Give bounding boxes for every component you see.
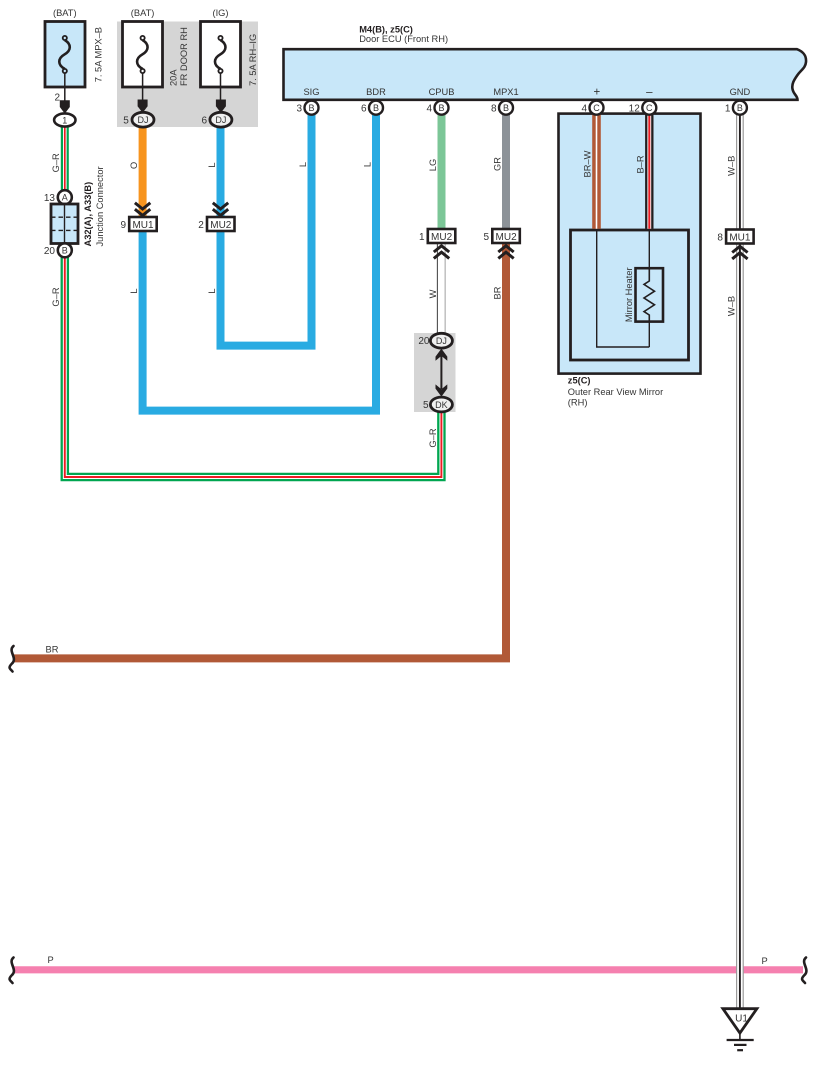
DJ-DK connector gray box bbox=[414, 333, 456, 412]
wire O orange from DJ5 to MU1 bbox=[139, 126, 147, 217]
svg-text:BR: BR bbox=[492, 286, 502, 299]
svg-text:5: 5 bbox=[484, 232, 490, 243]
wire L blue from DJ6 to MU2 bbox=[217, 126, 225, 217]
svg-text:CPUB: CPUB bbox=[429, 87, 455, 97]
fuse 7.5A RH-IG box bbox=[201, 22, 241, 88]
svg-text:B–R: B–R bbox=[636, 155, 646, 173]
svg-text:W–B: W–B bbox=[726, 156, 736, 176]
svg-text:(BAT): (BAT) bbox=[53, 8, 77, 18]
svg-text:GND: GND bbox=[730, 87, 751, 97]
pin circle 6 B (BDR) bbox=[369, 101, 383, 115]
chevron down into MU1 bbox=[135, 203, 150, 216]
svg-text:B: B bbox=[373, 103, 379, 113]
svg-text:(RH): (RH) bbox=[568, 398, 588, 408]
svg-text:C: C bbox=[646, 103, 653, 113]
svg-text:4: 4 bbox=[581, 104, 587, 115]
svg-text:U1: U1 bbox=[735, 1014, 748, 1025]
mirror internal wire left (from BR-W) bbox=[597, 230, 650, 347]
svg-text:2: 2 bbox=[54, 93, 60, 104]
svg-text:SIG: SIG bbox=[303, 87, 319, 97]
svg-text:W: W bbox=[428, 289, 438, 298]
connector oval DJ5 bbox=[132, 112, 154, 127]
svg-text:W–B: W–B bbox=[726, 296, 736, 316]
pin circle 4 C (+) bbox=[590, 101, 604, 115]
svg-text:Junction Connector: Junction Connector bbox=[95, 166, 105, 246]
break squiggle BR left bbox=[10, 646, 14, 672]
svg-text:8: 8 bbox=[491, 104, 497, 115]
svg-text:Outer Rear View Mirror: Outer Rear View Mirror bbox=[568, 387, 663, 397]
connector oval DK (5) bbox=[430, 397, 452, 412]
connector MU1 (8) GND bbox=[726, 230, 754, 244]
connector MU2 (1) CPUB bbox=[428, 229, 456, 243]
svg-text:B: B bbox=[503, 103, 509, 113]
svg-text:6: 6 bbox=[202, 116, 208, 127]
arrow into DJ6 bbox=[216, 100, 226, 113]
pin circle 1 B (GND) bbox=[733, 101, 747, 115]
wire L blue U from MU1 to BDR bbox=[143, 114, 376, 411]
svg-text:–: – bbox=[646, 87, 653, 99]
svg-text:MPX1: MPX1 bbox=[493, 87, 518, 97]
svg-text:DJ: DJ bbox=[215, 115, 226, 125]
wire G-R from oval 1 through junction connector bbox=[61, 126, 69, 191]
svg-text:LG: LG bbox=[428, 159, 438, 171]
pin circle 4 B (CPUB) bbox=[435, 101, 449, 115]
fuse panel gray box (FR DOOR RH / RH-IG) bbox=[117, 22, 258, 128]
svg-text:2: 2 bbox=[198, 220, 204, 231]
svg-text:+: + bbox=[593, 87, 600, 99]
chevron up below MU2 (5) bbox=[498, 246, 513, 259]
mirror heater resistor zigzag bbox=[644, 268, 655, 322]
svg-text:MU2: MU2 bbox=[496, 232, 518, 243]
svg-text:MU1: MU1 bbox=[132, 220, 154, 231]
svg-text:B: B bbox=[737, 103, 743, 113]
arrows between DJ and DK bbox=[436, 349, 448, 397]
svg-text:B: B bbox=[62, 246, 68, 256]
svg-text:L: L bbox=[298, 162, 308, 167]
svg-text:5: 5 bbox=[423, 400, 429, 411]
svg-text:C: C bbox=[593, 103, 600, 113]
svg-text:B: B bbox=[308, 103, 314, 113]
svg-text:3: 3 bbox=[296, 104, 302, 115]
svg-text:(BAT): (BAT) bbox=[131, 8, 155, 18]
svg-text:1: 1 bbox=[419, 232, 425, 243]
svg-text:P: P bbox=[762, 956, 768, 966]
break squiggle P right bbox=[802, 958, 806, 984]
svg-text:O: O bbox=[129, 162, 139, 169]
arrow into DJ5 bbox=[138, 100, 148, 113]
svg-text:20: 20 bbox=[418, 336, 430, 347]
connector oval DJ (20) bbox=[430, 333, 452, 348]
fuse 20A FR DOOR RH symbol bbox=[137, 36, 148, 101]
svg-text:G–R: G–R bbox=[428, 428, 438, 447]
svg-text:G–R: G–R bbox=[51, 287, 61, 306]
svg-text:GR: GR bbox=[492, 157, 502, 171]
svg-text:7. 5A MPX–B: 7. 5A MPX–B bbox=[94, 27, 104, 82]
pin circle 3 B (SIG) bbox=[305, 101, 319, 115]
svg-text:6: 6 bbox=[361, 104, 367, 115]
junction connector 20 B circle bbox=[58, 243, 72, 257]
svg-text:B: B bbox=[438, 103, 444, 113]
break squiggle P left bbox=[10, 958, 14, 984]
svg-text:4: 4 bbox=[426, 104, 432, 115]
svg-text:MU1: MU1 bbox=[729, 232, 751, 243]
svg-text:12: 12 bbox=[629, 104, 641, 115]
chevron up below MU2 (1) bbox=[434, 246, 449, 259]
ground stem bbox=[739, 1033, 741, 1039]
svg-text:A32(A), A33(B): A32(A), A33(B) bbox=[83, 182, 93, 247]
svg-text:20: 20 bbox=[44, 246, 56, 257]
connector MU2 (2) bbox=[207, 217, 235, 231]
wire W-B from GND to MU1 bbox=[736, 114, 744, 230]
svg-text:M4(B), z5(C): M4(B), z5(C) bbox=[359, 24, 413, 34]
ground U1 triangle bbox=[723, 1009, 757, 1033]
svg-text:L: L bbox=[207, 162, 217, 167]
pin circle 12 C (-) bbox=[642, 101, 656, 115]
svg-text:(IG): (IG) bbox=[212, 8, 228, 18]
wire B-R from - to mirror inner box bbox=[645, 114, 653, 229]
wire W-B from MU1 to ground U1 bbox=[736, 244, 744, 1010]
chevron up below MU1 (8) bbox=[732, 246, 747, 259]
svg-text:Mirror Heater: Mirror Heater bbox=[624, 267, 634, 322]
svg-text:7. 5A RH–IG: 7. 5A RH–IG bbox=[248, 34, 258, 86]
svg-text:L: L bbox=[362, 162, 372, 167]
arrow into oval 1 bbox=[60, 100, 70, 113]
svg-text:BDR: BDR bbox=[366, 87, 386, 97]
wire BR from MU2 down and across to left bbox=[14, 243, 506, 658]
svg-text:1: 1 bbox=[62, 115, 67, 125]
outer rear view mirror box z5(C) bbox=[559, 114, 701, 374]
svg-text:BR: BR bbox=[46, 645, 59, 655]
svg-text:z5(C): z5(C) bbox=[568, 375, 591, 385]
svg-text:L: L bbox=[129, 288, 139, 293]
connector oval 1 bbox=[54, 113, 75, 126]
junction connector 13 A circle bbox=[58, 190, 72, 204]
svg-text:DJ: DJ bbox=[436, 336, 447, 346]
fuse 7.5A MPX-B box bbox=[45, 22, 85, 88]
svg-text:DJ: DJ bbox=[138, 115, 149, 125]
svg-text:5: 5 bbox=[123, 116, 129, 127]
Door ECU box M4(B), z5(C) bbox=[284, 49, 807, 100]
svg-text:MU2: MU2 bbox=[431, 232, 453, 243]
svg-text:DK: DK bbox=[435, 400, 448, 410]
mirror heater resistor box bbox=[636, 268, 664, 321]
earth symbol bbox=[727, 1040, 754, 1050]
wire G-R from junction B down, across, up to DK bbox=[65, 256, 442, 477]
svg-text:L: L bbox=[207, 288, 217, 293]
wire P pink horizontal bbox=[14, 966, 803, 973]
wire GR from MPX1 to MU2 bbox=[502, 114, 510, 229]
svg-text:8: 8 bbox=[717, 233, 723, 244]
connector MU2 (5) MPX1 bbox=[492, 229, 520, 243]
wire W from MU2 to DJ20 bbox=[437, 243, 445, 335]
chevron down into MU2 bbox=[213, 203, 228, 216]
connector MU1 (9) bbox=[129, 217, 157, 231]
wire L blue U from MU2 to SIG bbox=[221, 114, 312, 346]
svg-text:Door ECU (Front RH): Door ECU (Front RH) bbox=[359, 34, 448, 44]
svg-text:9: 9 bbox=[120, 220, 126, 231]
svg-text:BR–W: BR–W bbox=[583, 150, 593, 177]
connector oval DJ6 bbox=[210, 112, 232, 127]
mirror internal wire right (from B-R to heater) bbox=[648, 230, 650, 347]
wire BR-W from + to mirror inner box bbox=[592, 114, 601, 229]
junction connector A32(A), A33(B) box bbox=[51, 204, 78, 244]
svg-text:A: A bbox=[62, 193, 68, 203]
svg-text:1: 1 bbox=[725, 104, 731, 115]
svg-text:MU2: MU2 bbox=[210, 220, 232, 231]
wire LG from CPUB to MU2 bbox=[438, 114, 446, 229]
pin circle 8 B (MPX1) bbox=[499, 101, 513, 115]
fuse 7.5A RH-IG symbol bbox=[215, 36, 226, 101]
fuse 20A FR DOOR RH box bbox=[123, 22, 163, 88]
fuse 7.5A MPX-B symbol bbox=[59, 36, 70, 101]
mirror inner box bbox=[571, 230, 689, 360]
svg-text:13: 13 bbox=[44, 193, 56, 204]
svg-text:P: P bbox=[48, 955, 54, 965]
svg-text:20A: 20A bbox=[169, 69, 179, 86]
svg-text:G–R: G–R bbox=[51, 153, 61, 172]
svg-text:FR DOOR RH: FR DOOR RH bbox=[179, 27, 189, 86]
